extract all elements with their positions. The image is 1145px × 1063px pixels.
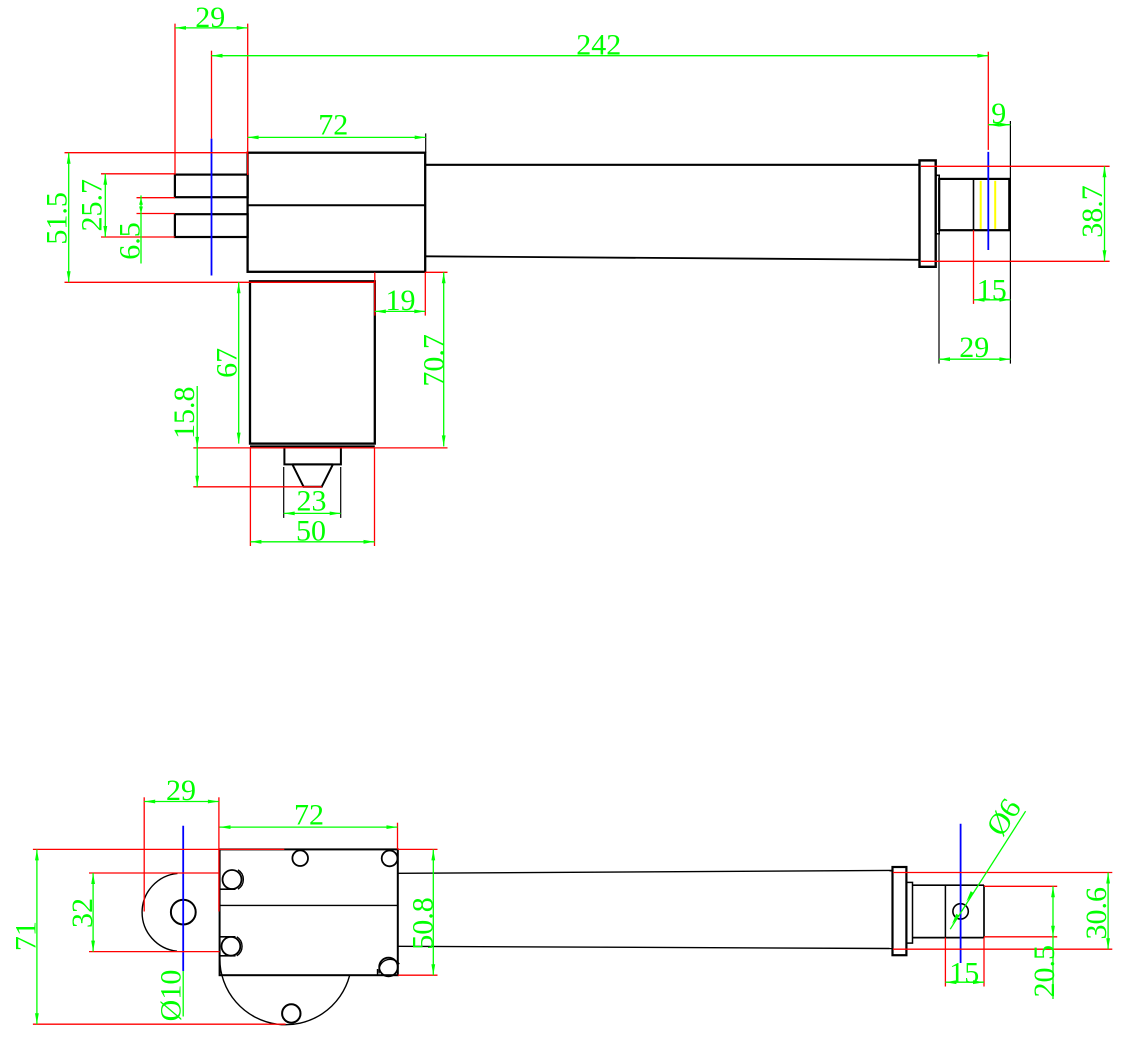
bottom view: flange lip washer [906,882,912,943]
svg-text:23: 23 [297,484,327,517]
label diam 10 leader [155,970,188,1022]
svg-text:15: 15 [949,957,979,990]
dimension 29 bottom view [144,774,219,807]
dimension 15.8 shaft [168,386,201,487]
bottom view: housing outline [220,849,398,975]
svg-text:70.7: 70.7 [418,334,451,387]
dimension 23 shaft [284,484,341,517]
svg-text:38.7: 38.7 [1076,185,1109,238]
dimension 38.7 right [1076,166,1109,261]
bottom view: mount slot lines bottom-left [220,936,236,938]
top view: flange lip washer [936,175,940,234]
bottom view: screw hole bottom-right counterbore arc [379,959,399,973]
top view: connector tab upper [175,175,248,198]
top view: shaft tip trapezoid [292,464,333,486]
bottom view: tube end flange [893,867,907,955]
dimension 70.7 right of motor [418,272,451,446]
svg-text:15.8: 15.8 [168,386,201,439]
top view: red extension lines [65,24,1110,546]
top view: extension tick 72 right (black) [425,133,427,152]
svg-text:242: 242 [576,29,621,62]
bottom view: mount hole top-left [223,870,242,889]
dimension 72 bottom view [220,799,398,832]
top view: extension line 29-right left (black) [938,234,940,364]
bottom view: screw hole top-middle [292,850,308,866]
svg-text:20.5: 20.5 [1028,945,1061,998]
top view: housing parting line [248,204,426,206]
svg-text:15: 15 [977,273,1007,306]
svg-text:50.8: 50.8 [406,897,439,950]
dimension 29 top-left [175,1,248,34]
dimension 50 motor width [250,515,374,548]
bottom view: mount hole bottom-left [222,937,241,956]
svg-text:72: 72 [318,109,348,142]
top view: tube top line [425,164,919,166]
top view: centerline blue left [211,139,213,276]
top view: rod end block divider [973,179,975,230]
top view: motor bottom cap line [250,445,375,447]
dimension 25.7 left [75,174,108,237]
bottom view: slot line bottom-right [377,969,379,976]
svg-text:6.5: 6.5 [114,222,147,260]
label diam 6 leader [950,793,1028,929]
dimension 19 notch [375,284,426,317]
svg-text:71: 71 [9,921,42,951]
svg-text:25.7: 25.7 [75,179,108,232]
dimension 29 right [939,331,1010,364]
top view: tube end flange [920,160,936,266]
top view: extension line 23 right (black) [340,467,342,518]
bottom view: mount hole top-left counterbore arc [238,870,243,889]
svg-text:9: 9 [991,97,1006,130]
top view: extension line 23 left (black) [283,467,285,518]
bottom view: mount slot line top-left [220,888,236,890]
bottom view: big bottom arc [220,958,350,1024]
top view: tube bottom line [425,256,919,260]
svg-text:29: 29 [959,331,989,364]
svg-text:29: 29 [166,774,196,807]
svg-text:32: 32 [66,898,99,928]
svg-text:29: 29 [195,1,225,34]
top view: motor body outline [250,281,375,443]
bottom view: mount hole bottom-left counterbore arc [237,937,242,956]
bottom view: tube top line [398,870,893,873]
svg-text:Ø10: Ø10 [155,970,188,1022]
bottom view: motor bulge arc [142,873,177,951]
dimension 20.5 rod [1028,886,1061,999]
svg-text:19: 19 [386,284,416,317]
dimension 71 overall height [9,849,42,1024]
svg-text:72: 72 [294,799,324,832]
top view: connector tab lower [175,214,248,237]
dimension 72 housing [248,109,426,142]
svg-text:Ø6: Ø6 [980,793,1028,842]
top view: centerline blue right [987,152,989,250]
top view: slot line yellow right [994,181,996,229]
svg-text:50: 50 [296,515,326,548]
bottom view: centerline blue right [960,824,962,963]
top view: rod end block [939,179,1009,230]
dimension 67 motor [210,282,243,443]
bottom view: rod outline [913,885,985,937]
bottom view: housing mid line [220,904,398,906]
bottom view: shaft hole (diam 10) [171,900,196,925]
bottom view: screw hole top-right [382,851,398,867]
top view: slot line yellow left [980,181,982,229]
bottom view: screw hole bottom-right [379,958,398,977]
bottom view: screw hole bottom-middle [282,1004,300,1022]
bottom view: centerline blue left [182,826,184,971]
dimension 15 bottom view [945,957,984,990]
svg-text:51.5: 51.5 [40,192,73,245]
dimension 242 overall [212,29,989,62]
dimension 32 motor [66,873,99,952]
svg-text:30.6: 30.6 [1080,887,1113,940]
bottom view: tube bottom line [398,946,893,948]
dimension 30.6 tube [1080,873,1113,950]
dimension 9 right [988,97,1010,130]
dimension 6.5 left [114,195,147,263]
bottom view: rod end hole (diam 6) [953,904,968,919]
svg-text:67: 67 [210,348,243,378]
bottom view: rod block divider [944,885,946,937]
dimension 51.5 left [40,153,73,283]
top view: gearbox housing outline [248,153,426,272]
top view: output shaft boss [284,448,341,465]
dimension 15 right [974,273,1011,306]
top view: extension line right end (black) [1009,121,1011,364]
bottom view: red extension lines [33,797,1112,1024]
dimension 50.8 housing [406,849,439,975]
